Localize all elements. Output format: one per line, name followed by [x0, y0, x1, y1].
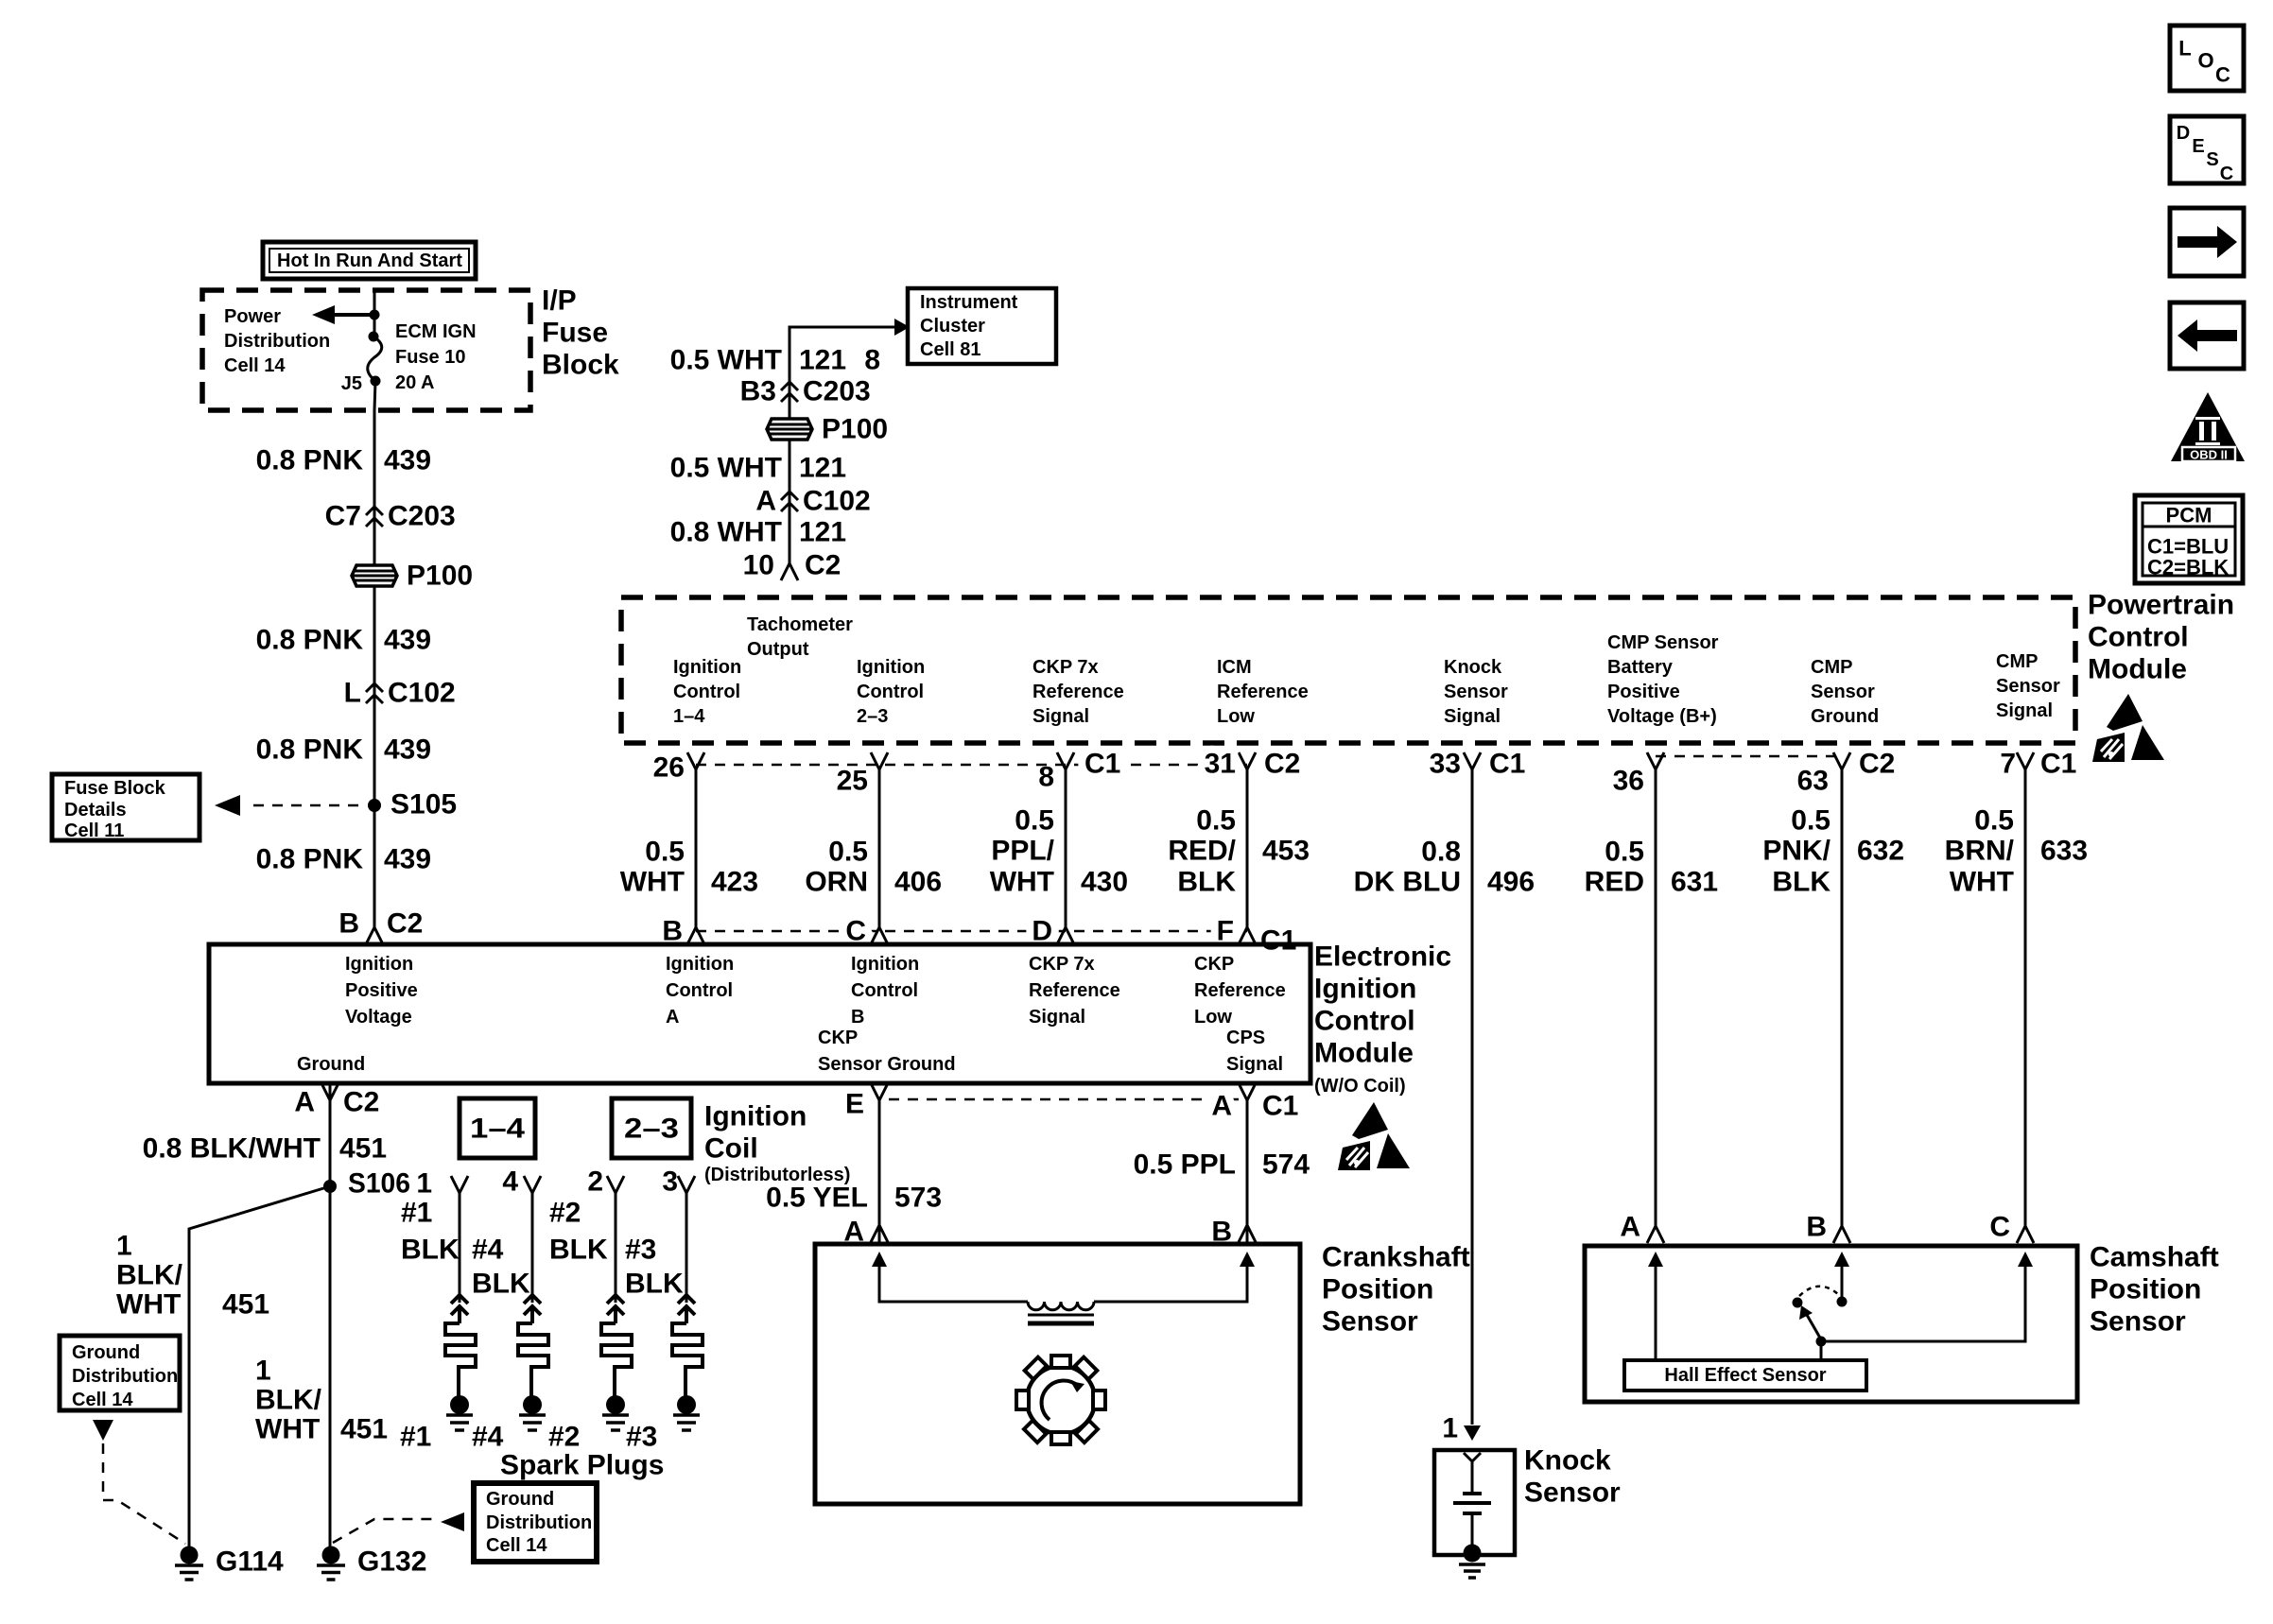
- svg-text:Knock: Knock: [1444, 657, 1502, 678]
- svg-text:ECM IGN: ECM IGN: [395, 321, 477, 342]
- svg-text:C2: C2: [387, 908, 423, 940]
- svg-text:0.5: 0.5: [828, 837, 868, 868]
- svg-text:C2: C2: [805, 550, 841, 581]
- svg-text:BLK: BLK: [1177, 867, 1236, 898]
- svg-text:121: 121: [799, 345, 846, 376]
- svg-text:10: 10: [743, 550, 774, 581]
- svg-text:633: 633: [2040, 836, 2088, 867]
- svg-text:Signal: Signal: [1226, 1054, 1283, 1075]
- svg-text:RED: RED: [1585, 867, 1644, 898]
- svg-text:C102: C102: [803, 486, 871, 517]
- svg-text:Distribution: Distribution: [224, 331, 330, 352]
- svg-text:C2: C2: [1859, 749, 1895, 780]
- svg-text:C7: C7: [325, 501, 361, 532]
- svg-text:WHT: WHT: [620, 867, 685, 898]
- svg-text:Camshaft: Camshaft: [2090, 1242, 2219, 1273]
- svg-text:Spark Plugs: Spark Plugs: [500, 1450, 664, 1481]
- svg-text:BLK: BLK: [401, 1235, 460, 1266]
- svg-text:121: 121: [799, 517, 846, 548]
- svg-text:E: E: [2192, 136, 2204, 157]
- svg-text:0.8 WHT: 0.8 WHT: [670, 517, 782, 548]
- svg-text:C1: C1: [2040, 749, 2076, 780]
- svg-text:1: 1: [416, 1168, 432, 1200]
- svg-text:0.5: 0.5: [1791, 805, 1831, 837]
- svg-text:Control: Control: [851, 980, 918, 1001]
- svg-text:Sensor Ground: Sensor Ground: [818, 1054, 956, 1075]
- svg-text:S: S: [2206, 149, 2218, 170]
- svg-text:632: 632: [1857, 836, 1904, 867]
- svg-text:Ground: Ground: [1811, 706, 1879, 727]
- svg-text:I/P: I/P: [542, 285, 577, 317]
- svg-text:CMP: CMP: [1996, 651, 2038, 672]
- svg-text:439: 439: [384, 625, 431, 656]
- svg-text:406: 406: [894, 867, 942, 898]
- svg-text:B: B: [1806, 1212, 1827, 1243]
- svg-text:L: L: [2178, 37, 2191, 60]
- svg-text:Distribution: Distribution: [486, 1512, 592, 1533]
- svg-text:26: 26: [653, 752, 685, 784]
- svg-text:Control: Control: [1314, 1006, 1415, 1037]
- svg-text:0.8 PNK: 0.8 PNK: [256, 844, 364, 875]
- svg-text:Ground: Ground: [297, 1054, 365, 1075]
- svg-text:Reference: Reference: [1217, 682, 1309, 702]
- svg-text:451: 451: [340, 1414, 388, 1445]
- svg-text:Voltage: Voltage: [345, 1007, 412, 1028]
- svg-text:2–3: 2–3: [857, 706, 888, 727]
- svg-text:7: 7: [2000, 749, 2016, 780]
- svg-text:Coil: Coil: [704, 1133, 758, 1165]
- svg-text:C2=BLK: C2=BLK: [2147, 556, 2229, 579]
- svg-text:Sensor: Sensor: [1996, 676, 2060, 697]
- svg-text:Reference: Reference: [1029, 980, 1120, 1001]
- svg-text:Positive: Positive: [1607, 682, 1680, 702]
- svg-text:0.5: 0.5: [645, 837, 685, 868]
- svg-text:Module: Module: [2088, 654, 2187, 685]
- svg-text:Knock: Knock: [1524, 1445, 1611, 1477]
- svg-text:BLK: BLK: [549, 1235, 608, 1266]
- svg-text:C1: C1: [1260, 925, 1296, 957]
- svg-text:A: A: [755, 486, 776, 517]
- svg-text:Control: Control: [857, 682, 924, 702]
- svg-text:Reference: Reference: [1032, 682, 1124, 702]
- svg-text:BLK: BLK: [625, 1269, 684, 1300]
- svg-text:C1: C1: [1084, 749, 1120, 780]
- svg-text:Sensor: Sensor: [2090, 1306, 2186, 1338]
- svg-text:CPS: CPS: [1226, 1028, 1265, 1048]
- svg-text:0.8 PNK: 0.8 PNK: [256, 734, 364, 766]
- svg-text:0.5: 0.5: [1605, 837, 1644, 868]
- svg-text:S105: S105: [390, 789, 457, 821]
- svg-text:Fuse 10: Fuse 10: [395, 347, 465, 368]
- svg-text:Cell 14: Cell 14: [224, 355, 286, 376]
- svg-text:Cluster: Cluster: [920, 316, 985, 337]
- svg-text:Signal: Signal: [1032, 706, 1089, 727]
- svg-text:C203: C203: [388, 501, 456, 532]
- svg-text:Crankshaft: Crankshaft: [1322, 1242, 1470, 1273]
- svg-text:Control: Control: [666, 980, 733, 1001]
- svg-text:C2: C2: [343, 1087, 379, 1118]
- svg-text:1–4: 1–4: [673, 706, 705, 727]
- svg-text:1: 1: [1442, 1413, 1458, 1444]
- svg-text:33: 33: [1430, 749, 1461, 780]
- svg-text:Sensor: Sensor: [1322, 1306, 1418, 1338]
- svg-text:Signal: Signal: [1996, 700, 2053, 721]
- svg-text:#3: #3: [625, 1235, 656, 1266]
- svg-text:Module: Module: [1314, 1038, 1414, 1069]
- svg-text:574: 574: [1262, 1149, 1310, 1181]
- svg-text:2: 2: [587, 1166, 603, 1198]
- svg-text:Hall Effect Sensor: Hall Effect Sensor: [1664, 1365, 1826, 1386]
- svg-text:Voltage (B+): Voltage (B+): [1607, 706, 1717, 727]
- svg-text:439: 439: [384, 844, 431, 875]
- svg-text:C: C: [2220, 164, 2233, 184]
- svg-text:BLK: BLK: [472, 1269, 530, 1300]
- svg-text:430: 430: [1081, 867, 1128, 898]
- svg-text:Instrument: Instrument: [920, 292, 1018, 313]
- svg-text:#3: #3: [626, 1422, 657, 1453]
- svg-text:Sensor: Sensor: [1444, 682, 1508, 702]
- svg-text:CKP 7x: CKP 7x: [1029, 954, 1095, 975]
- svg-text:631: 631: [1671, 867, 1718, 898]
- svg-text:RED/: RED/: [1168, 836, 1236, 867]
- svg-text:8: 8: [864, 345, 880, 376]
- svg-text:0.5: 0.5: [1974, 805, 2014, 837]
- svg-text:Cell 81: Cell 81: [920, 339, 980, 360]
- svg-text:#4: #4: [472, 1235, 504, 1266]
- svg-text:36: 36: [1613, 766, 1644, 797]
- svg-text:C: C: [1989, 1212, 2010, 1243]
- svg-text:0.8 PNK: 0.8 PNK: [256, 625, 364, 656]
- svg-text:Hot In Run And Start: Hot In Run And Start: [277, 251, 462, 271]
- svg-text:CMP: CMP: [1811, 657, 1852, 678]
- svg-text:Ignition: Ignition: [345, 954, 413, 975]
- svg-text:A: A: [1211, 1091, 1232, 1122]
- svg-text:PPL/: PPL/: [991, 836, 1054, 867]
- svg-text:Ignition: Ignition: [857, 657, 925, 678]
- svg-text:0.5 WHT: 0.5 WHT: [670, 453, 782, 484]
- svg-text:PCM: PCM: [2166, 504, 2212, 527]
- svg-text:Ignition: Ignition: [673, 657, 741, 678]
- svg-text:C1: C1: [1262, 1091, 1298, 1122]
- svg-text:CKP: CKP: [1194, 954, 1234, 975]
- svg-text:423: 423: [711, 867, 758, 898]
- svg-text:O: O: [2197, 49, 2213, 73]
- svg-text:0.8 BLK/WHT: 0.8 BLK/WHT: [143, 1133, 321, 1165]
- svg-text:0.5: 0.5: [1015, 805, 1054, 837]
- svg-text:Battery: Battery: [1607, 657, 1674, 678]
- svg-text:Powertrain: Powertrain: [2088, 590, 2234, 621]
- svg-text:(W/O Coil): (W/O Coil): [1314, 1076, 1406, 1097]
- svg-text:BLK/: BLK/: [116, 1260, 183, 1291]
- svg-text:8: 8: [1038, 762, 1054, 793]
- svg-text:G132: G132: [357, 1546, 426, 1578]
- svg-text:PNK/: PNK/: [1762, 836, 1831, 867]
- svg-text:#1: #1: [400, 1422, 431, 1453]
- svg-text:C2: C2: [1264, 749, 1300, 780]
- svg-text:CKP: CKP: [818, 1028, 858, 1048]
- svg-text:BLK: BLK: [1772, 867, 1831, 898]
- svg-text:BLK/: BLK/: [255, 1385, 322, 1416]
- svg-text:20 A: 20 A: [395, 372, 435, 393]
- svg-text:Ground: Ground: [72, 1342, 140, 1363]
- svg-text:Ignition: Ignition: [1314, 974, 1416, 1005]
- svg-text:451: 451: [339, 1133, 387, 1165]
- svg-text:#2: #2: [549, 1198, 581, 1229]
- svg-text:P100: P100: [407, 561, 473, 592]
- svg-text:A: A: [294, 1087, 315, 1118]
- svg-text:Ignition: Ignition: [851, 954, 919, 975]
- svg-text:E: E: [845, 1089, 864, 1120]
- svg-text:0.8 PNK: 0.8 PNK: [256, 445, 364, 476]
- svg-text:WHT: WHT: [1950, 867, 2014, 898]
- svg-text:Signal: Signal: [1029, 1007, 1085, 1028]
- svg-text:Positive: Positive: [345, 980, 418, 1001]
- svg-text:Fuse Block: Fuse Block: [64, 778, 166, 799]
- svg-text:OBD II: OBD II: [2190, 448, 2228, 462]
- svg-text:Power: Power: [224, 306, 281, 327]
- svg-text:Signal: Signal: [1444, 706, 1501, 727]
- svg-text:1: 1: [255, 1356, 271, 1387]
- svg-text:Distribution: Distribution: [72, 1366, 178, 1387]
- svg-text:2–3: 2–3: [624, 1114, 679, 1145]
- svg-text:Low: Low: [1194, 1007, 1232, 1028]
- svg-text:Block: Block: [542, 350, 619, 381]
- svg-text:ORN: ORN: [805, 867, 868, 898]
- svg-text:C102: C102: [388, 678, 456, 709]
- svg-text:#2: #2: [548, 1422, 580, 1453]
- svg-text:Position: Position: [2090, 1274, 2201, 1305]
- svg-text:0.5 WHT: 0.5 WHT: [670, 345, 782, 376]
- svg-text:WHT: WHT: [990, 867, 1054, 898]
- svg-text:Control: Control: [673, 682, 740, 702]
- svg-text:1–4: 1–4: [470, 1114, 525, 1145]
- svg-text:Details: Details: [64, 800, 127, 821]
- svg-text:B3: B3: [740, 376, 776, 407]
- svg-text:Reference: Reference: [1194, 980, 1286, 1001]
- svg-text:Fuse: Fuse: [542, 318, 608, 349]
- svg-text:CMP Sensor: CMP Sensor: [1607, 632, 1719, 653]
- svg-text:451: 451: [222, 1289, 269, 1321]
- svg-text:0.8: 0.8: [1421, 837, 1461, 868]
- svg-text:D: D: [2177, 123, 2190, 144]
- svg-text:0.5: 0.5: [1196, 805, 1236, 837]
- svg-text:G114: G114: [216, 1546, 284, 1578]
- svg-text:Sensor: Sensor: [1524, 1477, 1621, 1509]
- svg-text:Ignition: Ignition: [666, 954, 734, 975]
- svg-text:A: A: [666, 1007, 679, 1028]
- svg-text:A: A: [1620, 1212, 1640, 1243]
- svg-text:0.5 YEL: 0.5 YEL: [766, 1183, 868, 1214]
- svg-text:121: 121: [799, 453, 846, 484]
- svg-text:3: 3: [662, 1166, 678, 1198]
- svg-text:B: B: [338, 908, 359, 940]
- svg-text:439: 439: [384, 734, 431, 766]
- svg-text:P100: P100: [822, 414, 888, 445]
- svg-text:Cell 14: Cell 14: [72, 1390, 133, 1410]
- svg-text:B: B: [851, 1007, 864, 1028]
- svg-text:Cell 14: Cell 14: [486, 1535, 547, 1556]
- svg-text:C203: C203: [803, 376, 871, 407]
- svg-text:CKP 7x: CKP 7x: [1032, 657, 1099, 678]
- svg-text:WHT: WHT: [116, 1289, 181, 1321]
- svg-text:C1: C1: [1489, 749, 1525, 780]
- svg-text:Sensor: Sensor: [1811, 682, 1875, 702]
- svg-text:L: L: [344, 678, 361, 709]
- svg-text:J5: J5: [341, 373, 362, 394]
- svg-text:Ignition: Ignition: [704, 1101, 807, 1132]
- svg-text:C: C: [2215, 63, 2230, 87]
- svg-text:Control: Control: [2088, 622, 2189, 653]
- svg-text:Electronic: Electronic: [1314, 942, 1451, 973]
- svg-text:63: 63: [1797, 766, 1829, 797]
- svg-text:DK BLU: DK BLU: [1354, 867, 1461, 898]
- svg-text:25: 25: [837, 766, 868, 797]
- svg-text:573: 573: [894, 1183, 942, 1214]
- svg-text:S106: S106: [348, 1168, 410, 1200]
- svg-text:439: 439: [384, 445, 431, 476]
- svg-text:496: 496: [1487, 867, 1535, 898]
- svg-text:#4: #4: [472, 1422, 504, 1453]
- svg-text:Output: Output: [747, 639, 809, 660]
- svg-text:Ground: Ground: [486, 1489, 554, 1510]
- svg-text:#1: #1: [401, 1198, 432, 1229]
- svg-text:453: 453: [1262, 836, 1310, 867]
- svg-text:Tachometer: Tachometer: [747, 614, 853, 635]
- svg-text:0.5 PPL: 0.5 PPL: [1134, 1149, 1236, 1181]
- svg-text:BRN/: BRN/: [1945, 836, 2015, 867]
- svg-text:Low: Low: [1217, 706, 1255, 727]
- svg-text:31: 31: [1205, 749, 1236, 780]
- svg-text:WHT: WHT: [255, 1414, 320, 1445]
- svg-text:Position: Position: [1322, 1274, 1433, 1305]
- svg-text:4: 4: [502, 1166, 518, 1198]
- svg-text:Cell 11: Cell 11: [64, 821, 124, 841]
- svg-text:1: 1: [116, 1231, 132, 1262]
- svg-text:ICM: ICM: [1217, 657, 1252, 678]
